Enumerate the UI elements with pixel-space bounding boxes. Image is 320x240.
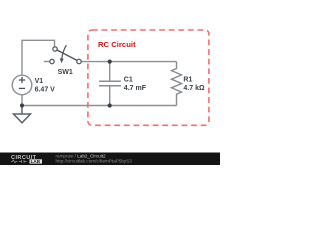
voltage source V1 bbox=[12, 75, 32, 95]
wire bottom bbox=[22, 95, 177, 106]
wire top-left (V1 top to switch) bbox=[22, 40, 55, 75]
footer black bar bbox=[0, 153, 220, 166]
svg-text:4.7 mF: 4.7 mF bbox=[124, 85, 147, 92]
CircuitLab logo wordmark bbox=[11, 155, 42, 164]
svg-text:V1: V1 bbox=[35, 78, 44, 85]
switch SW1 bbox=[44, 45, 81, 64]
node top of C1 bbox=[108, 60, 112, 64]
node bottom of C1 bbox=[108, 103, 112, 107]
svg-text:SW1: SW1 bbox=[58, 69, 73, 76]
svg-text:C1: C1 bbox=[124, 77, 133, 84]
RC Circuit dashed enclosure box bbox=[88, 30, 209, 125]
capacitor C1 bbox=[99, 62, 121, 106]
svg-text:R1: R1 bbox=[183, 77, 192, 84]
wire RC top (switch to R1) bbox=[81, 61, 176, 63]
resistor R1 bbox=[172, 62, 182, 106]
svg-text:http://circuitlab.com/c/8emPta: http://circuitlab.com/c/8emPtaP5byS3 bbox=[56, 159, 133, 164]
svg-text:RC Circuit: RC Circuit bbox=[98, 40, 136, 49]
ground bbox=[14, 106, 31, 123]
svg-text:LAB: LAB bbox=[31, 159, 41, 164]
junction node at ground tap bbox=[20, 103, 24, 107]
svg-text:4.7 kΩ: 4.7 kΩ bbox=[183, 85, 205, 92]
svg-text:6.47 V: 6.47 V bbox=[35, 86, 56, 93]
